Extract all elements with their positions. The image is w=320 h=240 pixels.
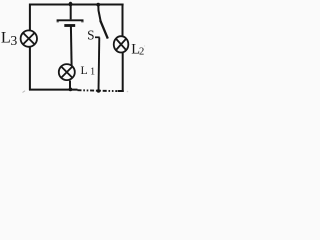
wire bottom dash-dot segment xyxy=(78,89,118,92)
wire top bus xyxy=(29,4,124,6)
battery B1 top lead wire xyxy=(70,4,72,19)
switch S upper lead wire xyxy=(98,4,101,22)
wire bottom right corner stub (solid) xyxy=(118,90,124,92)
scan speckle xyxy=(23,91,26,93)
wire bottom left (solid) xyxy=(29,89,78,91)
wire right branch upper xyxy=(122,4,124,37)
switch S blade (open) xyxy=(100,20,108,38)
wire left branch upper xyxy=(29,4,31,31)
node junction switch top xyxy=(96,3,100,7)
wire left branch lower xyxy=(29,47,31,90)
wire right branch lower xyxy=(122,52,124,92)
node junction switch bottom xyxy=(97,89,101,93)
svg-text:1: 1 xyxy=(90,67,95,78)
node junction battery bottom xyxy=(69,88,73,92)
svg-text:3: 3 xyxy=(10,33,17,48)
battery plate end blob left xyxy=(57,21,59,23)
switch S lower lead wire xyxy=(98,38,101,92)
svg-text:L: L xyxy=(81,63,88,77)
wire battery to lamp L1 xyxy=(70,26,73,66)
lamp L3 xyxy=(21,30,37,46)
wire lamp L1 to bottom bus xyxy=(69,81,71,91)
lamp L2 xyxy=(114,36,129,52)
scan speckle xyxy=(144,45,145,46)
scan speckle xyxy=(127,91,129,93)
battery plate end blob right xyxy=(81,21,83,23)
svg-text:S: S xyxy=(87,27,94,42)
node junction battery top xyxy=(69,2,73,7)
switch S lower contact tick xyxy=(95,36,100,38)
battery B1 long plate xyxy=(57,19,84,21)
svg-text:L: L xyxy=(1,29,11,47)
svg-text:2: 2 xyxy=(139,47,144,58)
battery B1 short plate xyxy=(64,24,75,27)
lamp L1 xyxy=(59,64,75,80)
